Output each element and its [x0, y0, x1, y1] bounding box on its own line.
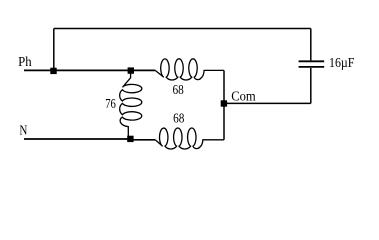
capacitor C1 top lead — [310, 29, 312, 61]
svg-text:76: 76 — [105, 97, 116, 112]
wire N line — [24, 138, 131, 140]
wire Com line to capacitor — [224, 102, 311, 104]
svg-text:Ph: Ph — [18, 55, 32, 70]
inductor L3 (vertical coil, value 76) — [120, 71, 142, 139]
inductor L1 (horizontal coil, upper, value 68) — [155, 59, 224, 80]
capacitor C1 bottom lead — [310, 68, 312, 104]
svg-text:68: 68 — [173, 83, 184, 98]
wire right vertical from coils to Com node — [223, 70, 225, 139]
svg-text:Com: Com — [231, 90, 256, 105]
wire N line to L2 entry — [131, 139, 155, 141]
svg-text:68: 68 — [173, 112, 184, 127]
node junction dot (N / L3 bottom) — [127, 136, 133, 142]
inductor L2 (horizontal coil, lower, value 68) — [155, 128, 224, 149]
wire left vertical from top wire to Ph line — [53, 29, 55, 71]
node junction dot (Ph / top-wire tap) — [50, 68, 56, 74]
wire Ph line — [24, 69, 155, 71]
node junction dot Com — [221, 100, 227, 106]
wire top horizontal — [54, 28, 311, 30]
capacitor C1 plates — [299, 66, 325, 68]
svg-text:16µF: 16µF — [329, 56, 355, 71]
node junction dot (Ph / L3 top) — [128, 67, 134, 73]
svg-text:N: N — [19, 124, 27, 139]
